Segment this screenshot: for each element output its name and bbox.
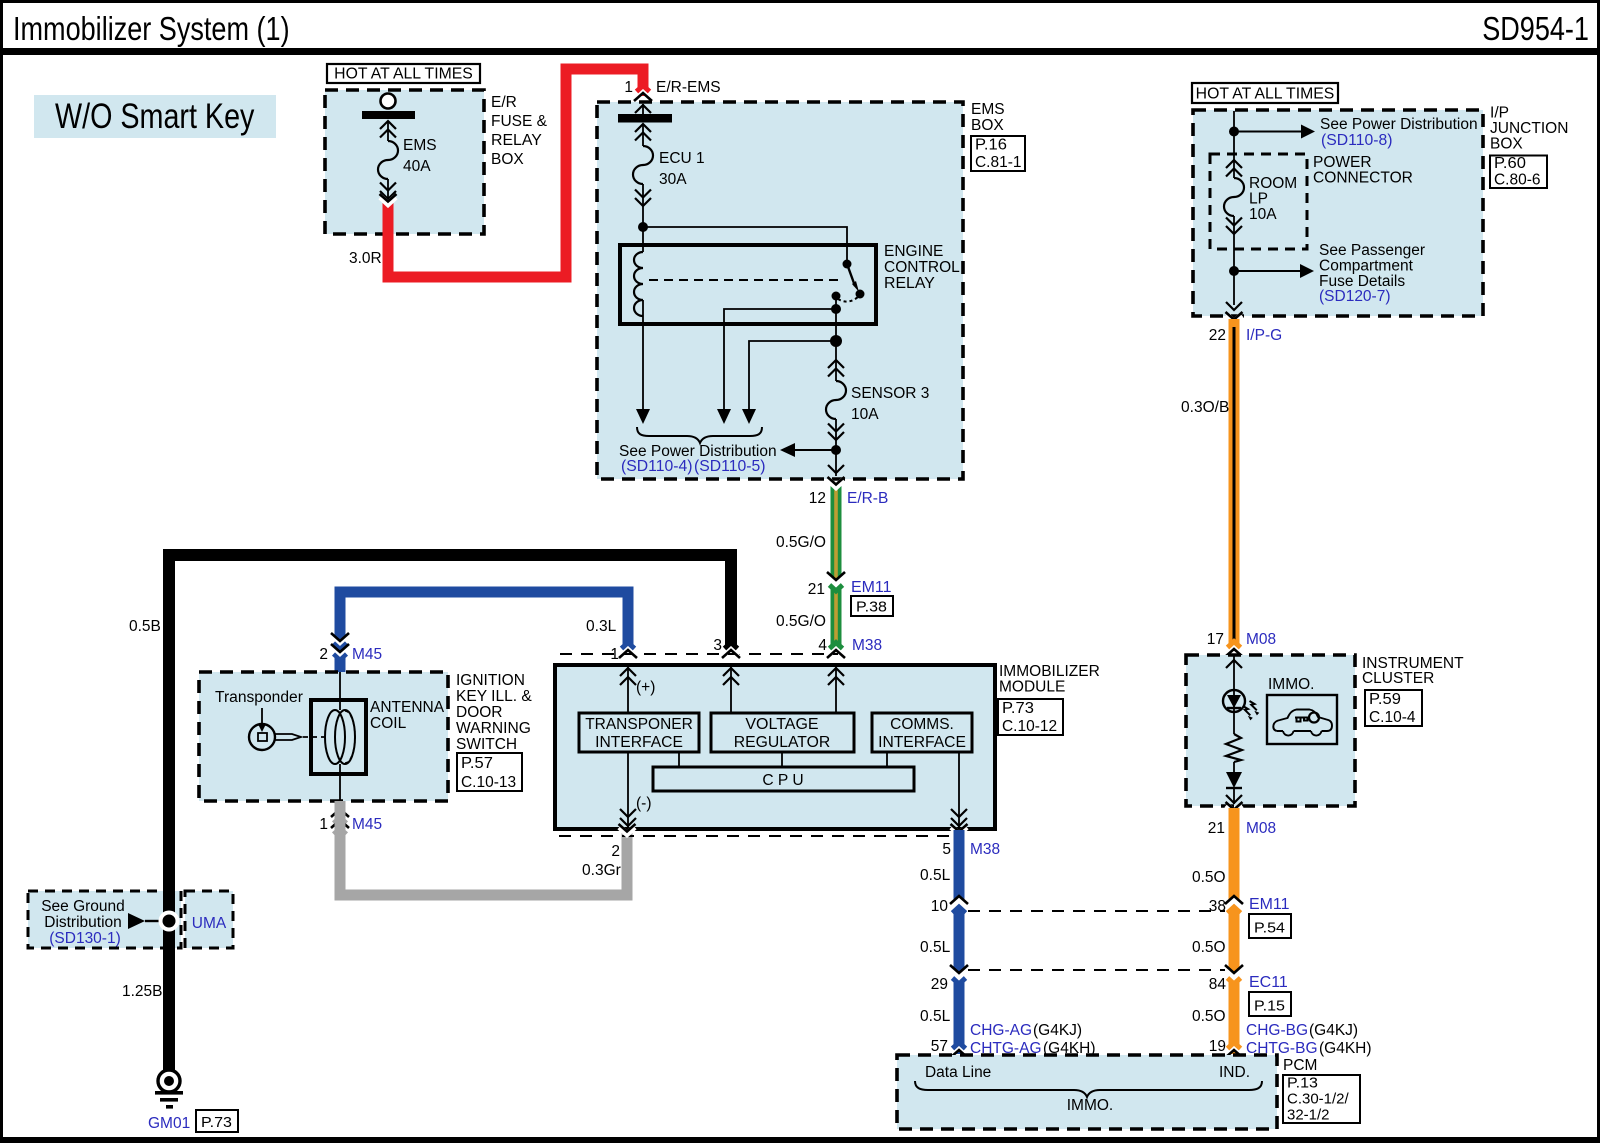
PCM reference P.13 C.30-1/2/ 32-1/2 [1283, 1074, 1360, 1123]
INSTRUMENT CLUSTER label [1362, 655, 1464, 687]
svg-text:(-): (-) [636, 795, 652, 812]
CPU block [653, 767, 914, 791]
svg-text:RELAY: RELAY [884, 275, 935, 292]
E/R FUSE & RELAY BOX label [491, 94, 548, 168]
svg-text:17: 17 [1207, 631, 1224, 648]
ANTENNA COIL box [311, 700, 366, 774]
relay switch [832, 260, 865, 302]
svg-text:ECU 1: ECU 1 [659, 150, 705, 167]
svg-text:0.5L: 0.5L [920, 867, 951, 884]
svg-text:BOX: BOX [491, 151, 524, 168]
svg-text:29: 29 [931, 976, 948, 993]
svg-text:IMMO.: IMMO. [1268, 676, 1315, 693]
EMS BOX enclosure [597, 102, 963, 479]
exit chevron I/P box [1226, 302, 1242, 310]
svg-text:UMA: UMA [192, 915, 227, 932]
svg-text:0.5L: 0.5L [920, 1008, 951, 1025]
PCM label [1283, 1057, 1317, 1074]
svg-text:RELAY: RELAY [491, 132, 542, 149]
svg-text:21: 21 [1208, 820, 1225, 837]
svg-text:Immobilizer System (1): Immobilizer System (1) [13, 10, 290, 47]
junction node relay output 1 [831, 304, 841, 314]
power distribution arrows [636, 409, 756, 424]
relay output wire to loads [835, 296, 837, 360]
entry arrow at pin 1 inside EMS box [635, 104, 651, 114]
svg-text:PCM: PCM [1283, 1057, 1317, 1074]
svg-text:E/R: E/R [491, 94, 517, 111]
svg-text:EMS: EMS [403, 137, 437, 154]
svg-text:Transponder: Transponder [215, 689, 303, 706]
title: Immobilizer System (1) [13, 10, 290, 47]
svg-text:5: 5 [942, 841, 951, 858]
svg-text:38: 38 [1209, 898, 1226, 915]
svg-text:0.5O: 0.5O [1192, 939, 1226, 956]
IMMOBILIZER MODULE box [555, 665, 995, 829]
svg-text:0.5L: 0.5L [920, 939, 951, 956]
cluster diode [1226, 772, 1242, 804]
arrow to see power distribution (I/P) [1234, 125, 1315, 139]
svg-text:21: 21 [808, 581, 825, 598]
wire 3.0R red power feed [388, 69, 643, 277]
connector 12 E/R-B [809, 477, 889, 507]
fuse EMS 40A value label [403, 137, 437, 175]
svg-text:0.5O: 0.5O [1192, 869, 1226, 886]
I/P JUNCTION BOX enclosure [1193, 110, 1483, 316]
wire name CHG-AG / CHTG-AG [970, 1022, 1096, 1057]
INSTRUMENT CLUSTER reference P.59 C.10-4 [1365, 690, 1422, 726]
svg-text:LP: LP [1249, 191, 1268, 208]
svg-text:SWITCH: SWITCH [456, 736, 517, 753]
arrow to see power distribution (EMS) [780, 443, 836, 457]
svg-text:BOX: BOX [971, 117, 1004, 134]
svg-text:(SD110-8): (SD110-8) [1321, 132, 1393, 149]
svg-text:HOT AT ALL TIMES: HOT AT ALL TIMES [1196, 86, 1335, 103]
connector 1 M38 (blue wire end) [610, 643, 637, 664]
POWER CONNECTOR enclosure [1210, 154, 1307, 249]
module wire TI to pin 2 [627, 752, 629, 810]
svg-text:0.5G/O: 0.5G/O [776, 534, 826, 551]
module pin 2 exit arrow [620, 809, 636, 827]
svg-text:CONNECTOR: CONNECTOR [1313, 170, 1413, 187]
svg-text:10A: 10A [1249, 206, 1277, 223]
svg-text:P.73: P.73 [201, 1114, 232, 1131]
connector 84 EC11 [1209, 965, 1288, 993]
wire label 0.5L upper [920, 867, 951, 884]
svg-text:EC11: EC11 [1249, 974, 1288, 991]
wire 0.5O orange [1229, 808, 1240, 1054]
svg-text:C.10-13: C.10-13 [461, 774, 516, 791]
svg-text:0.5O: 0.5O [1192, 1008, 1226, 1025]
svg-text:0.3L: 0.3L [586, 618, 617, 635]
See Power Distribution note (EMS) [619, 443, 777, 475]
Transponder label [215, 689, 303, 706]
svg-text:I/P: I/P [1490, 105, 1509, 122]
connector 38 EM11 [1209, 896, 1290, 915]
svg-text:(G4KJ): (G4KJ) [1309, 1022, 1358, 1039]
connector 3 M38 (black wire end) [713, 637, 740, 658]
exit chevron inside EMS box bottom [828, 465, 844, 473]
svg-text:HOT AT ALL TIMES: HOT AT ALL TIMES [334, 66, 473, 83]
svg-text:(SD120-7): (SD120-7) [1319, 288, 1391, 305]
INSTRUMENT CLUSTER enclosure [1186, 655, 1355, 806]
svg-text:P.60: P.60 [1494, 155, 1526, 172]
svg-text:32-1/2: 32-1/2 [1287, 1106, 1330, 1123]
ENGINE CONTROL RELAY label [884, 243, 960, 292]
bus bar (EMS box) [618, 114, 672, 123]
svg-text:IGNITION: IGNITION [456, 672, 525, 689]
svg-text:1: 1 [319, 816, 328, 833]
antenna coil windings [325, 672, 355, 801]
svg-text:12: 12 [809, 490, 826, 507]
wire label 0.5G/O upper [776, 534, 826, 551]
fuse ECU 1 30A value label [659, 150, 705, 188]
svg-text:19: 19 [1209, 1038, 1226, 1055]
wire fuse to exit (I/P) [1233, 234, 1235, 305]
module pin 3 entry arrow [723, 667, 739, 713]
relay coil [634, 227, 643, 316]
Data Line label [925, 1064, 991, 1081]
bus bar (E/R box) [362, 111, 415, 119]
svg-text:M08: M08 [1246, 631, 1276, 648]
svg-text:(G4KH): (G4KH) [1319, 1040, 1372, 1057]
svg-text:VOLTAGE: VOLTAGE [745, 716, 818, 733]
wire label 3.0R [349, 250, 382, 267]
connector 5 M38 [942, 824, 1000, 858]
transponder key symbol [249, 708, 301, 750]
IMMO. label (PCM) [1067, 1097, 1114, 1114]
svg-text:See Power Distribution: See Power Distribution [1320, 116, 1478, 133]
IMMO. car-with-key icon box [1267, 695, 1337, 744]
wire label 0.5B [129, 618, 161, 635]
fuse EMS 40A [378, 121, 398, 199]
See Passenger Compartment Fuse Details note [1319, 242, 1425, 305]
svg-text:C.81-1: C.81-1 [975, 154, 1022, 171]
I/P box internal feed wire [1233, 111, 1235, 160]
svg-text:CHG-AG: CHG-AG [970, 1022, 1032, 1039]
EM11 reference P.54 [1249, 914, 1291, 938]
svg-text:DOOR: DOOR [456, 704, 503, 721]
dashed connector row line 29-84 [968, 969, 1225, 971]
svg-text:0.3Gr: 0.3Gr [582, 862, 621, 879]
dashed connector row line 10-38 [968, 910, 1225, 912]
wire label 0.5O middle [1192, 939, 1226, 956]
svg-text:0.5B: 0.5B [129, 618, 161, 635]
svg-text:40A: 40A [403, 158, 431, 175]
connector 29 EC11 row [931, 965, 968, 993]
wire label 0.5O lower [1192, 1008, 1226, 1025]
IMMO. indicator LED [1223, 690, 1259, 720]
svg-text:SENSOR 3: SENSOR 3 [851, 385, 929, 402]
red wire exit connector at EMS fuse [380, 194, 397, 204]
svg-text:TRANSPONER: TRANSPONER [585, 716, 693, 733]
junction node passenger fuse note [1229, 266, 1239, 276]
module pin 1 entry arrow [620, 667, 636, 713]
I/P JUNCTION BOX label [1490, 105, 1568, 153]
module pin 4 entry arrow [828, 667, 844, 713]
svg-text:Data Line: Data Line [925, 1064, 991, 1081]
IND. label [1219, 1064, 1250, 1081]
svg-text:M08: M08 [1246, 820, 1276, 837]
svg-text:W/O Smart Key: W/O Smart Key [55, 97, 255, 136]
svg-text:84: 84 [1209, 976, 1227, 993]
sheet code SD954-1 [1482, 10, 1589, 47]
EC11 reference P.15 [1249, 992, 1291, 1016]
svg-text:EM11: EM11 [851, 579, 892, 596]
GM01 reference P.73 [196, 1110, 238, 1132]
svg-text:IMMO.: IMMO. [1067, 1097, 1114, 1114]
svg-text:KEY ILL. &: KEY ILL. & [456, 688, 532, 705]
junction node at see-power arrow [831, 445, 841, 455]
wire 0.5B black ground wire [169, 555, 731, 1070]
svg-text:4: 4 [818, 637, 827, 654]
svg-text:CLUSTER: CLUSTER [1362, 670, 1434, 687]
svg-text:(G4KJ): (G4KJ) [1033, 1022, 1082, 1039]
svg-text:3: 3 [713, 637, 722, 654]
svg-text:(SD130-1): (SD130-1) [49, 930, 121, 947]
junction node I/P feed [1229, 127, 1239, 137]
module wire COMMS to pin 5 [951, 752, 967, 827]
svg-text:1: 1 [610, 646, 619, 663]
I/P JUNCTION BOX reference P.60 C.80-6 [1490, 155, 1547, 188]
svg-text:EM11: EM11 [1249, 896, 1290, 913]
IMMOBILIZER MODULE reference P.73 C.10-12 [998, 699, 1063, 735]
svg-text:Distribution: Distribution [44, 914, 122, 931]
fuse ECU 1 30A [633, 124, 653, 206]
fusible link terminal circle [381, 94, 396, 109]
wire coil to power distribution arrow 1 [642, 300, 644, 410]
svg-text:P.13: P.13 [1287, 1074, 1318, 1091]
svg-text:2: 2 [319, 646, 328, 663]
svg-text:I/P-G: I/P-G [1246, 327, 1282, 344]
svg-text:CONTROL: CONTROL [884, 259, 960, 276]
svg-text:GM01: GM01 [148, 1115, 190, 1132]
svg-text:C.30-1/2/: C.30-1/2/ [1287, 1090, 1350, 1107]
W/O Smart Key banner [34, 95, 276, 138]
HOT AT ALL TIMES label (I/P box) [1192, 83, 1338, 103]
junction node after ECU1 fuse [638, 222, 648, 232]
svg-text:ENGINE: ENGINE [884, 243, 943, 260]
svg-text:C.80-6: C.80-6 [1494, 171, 1541, 188]
TRANSPONER INTERFACE block [579, 713, 699, 752]
connector 4 M38 (green wire end) [818, 637, 882, 658]
svg-text:P.16: P.16 [975, 137, 1007, 154]
svg-text:MODULE: MODULE [999, 679, 1065, 696]
svg-text:(SD110-5): (SD110-5) [694, 458, 766, 475]
IMMOBILIZER MODULE label [999, 663, 1100, 696]
See Ground Distribution box [28, 891, 181, 948]
brace inside PCM [915, 1081, 1262, 1097]
fuse SENSOR 3 10A value label [851, 385, 929, 423]
svg-text:COMMS.: COMMS. [890, 716, 954, 733]
svg-text:P.57: P.57 [461, 755, 493, 772]
connector 21 M08 [1208, 802, 1276, 837]
svg-text:P.59: P.59 [1369, 691, 1401, 708]
svg-text:POWER: POWER [1313, 154, 1372, 171]
svg-text:3.0R: 3.0R [349, 250, 382, 267]
ANTENNA COIL label [370, 699, 445, 732]
wire label 0.5L lower [920, 1008, 951, 1025]
svg-text:(SD110-4): (SD110-4) [621, 458, 693, 475]
svg-text:M38: M38 [970, 841, 1000, 858]
connector 10 M38/EM11 row [931, 896, 968, 915]
POWER CONNECTOR label [1313, 154, 1413, 187]
svg-text:M45: M45 [352, 646, 382, 663]
connector 21 EM11 [808, 572, 892, 598]
svg-text:E/R-B: E/R-B [847, 490, 888, 507]
svg-text:INTERFACE: INTERFACE [878, 734, 966, 751]
(+) label [636, 679, 655, 696]
svg-text:C.10-4: C.10-4 [1369, 709, 1416, 726]
svg-text:E/R-EMS: E/R-EMS [656, 79, 721, 96]
E/R FUSE & RELAY BOX enclosure [325, 90, 484, 234]
svg-text:See Passenger: See Passenger [1319, 242, 1425, 259]
connector 17 M08 [1207, 631, 1276, 657]
brace under arrows [637, 427, 762, 443]
svg-text:0.5G/O: 0.5G/O [776, 613, 826, 630]
cluster internal wire upper [1226, 656, 1242, 691]
svg-text:REGULATOR: REGULATOR [734, 734, 831, 751]
svg-text:ROOM: ROOM [1249, 175, 1297, 192]
svg-text:C P U: C P U [762, 772, 803, 789]
svg-text:22: 22 [1209, 327, 1226, 344]
PCM enclosure [897, 1055, 1277, 1129]
wire from node to relay switch [643, 227, 847, 262]
svg-text:ANTENNA: ANTENNA [370, 699, 445, 716]
wire 0.3Gr gray [340, 801, 627, 895]
wire 0.5L blue data line [954, 830, 965, 1054]
wire 0.5G/O green with orange tracer [831, 484, 842, 652]
IGNITION KEY ILL label [456, 672, 532, 753]
wire name CHG-BG / CHTG-BG [1246, 1022, 1372, 1057]
M38 connector row dashed line top [560, 653, 838, 655]
ground name GM01 [148, 1115, 190, 1132]
connector pin 57 at PCM [931, 1038, 968, 1058]
svg-text:P.38: P.38 [856, 599, 887, 616]
svg-text:IND.: IND. [1219, 1064, 1250, 1081]
svg-text:FUSE &: FUSE & [491, 113, 548, 130]
wire 1.25B through ground boxes [163, 889, 175, 950]
svg-text:(+): (+) [636, 679, 655, 696]
svg-text:P.73: P.73 [1002, 700, 1034, 717]
svg-text:P.15: P.15 [1254, 998, 1285, 1015]
svg-text:1: 1 [624, 79, 633, 96]
wire sensor fuse to exit [835, 440, 837, 476]
wire label 0.5G/O lower [776, 613, 826, 630]
module internal wires to CPU [679, 752, 887, 767]
wire label 0.3Gr [582, 862, 621, 879]
fuse ROOM LP 10A value label [1249, 175, 1297, 223]
svg-text:30A: 30A [659, 171, 687, 188]
wire from fuse to relay node [642, 206, 644, 227]
IGNITION KEY ILL reference P.57 C.10-13 [457, 753, 522, 791]
dashed coupling line key to coil [303, 736, 329, 738]
svg-text:0.3O/B: 0.3O/B [1181, 399, 1229, 416]
ENGINE CONTROL RELAY box [620, 245, 876, 324]
svg-text:Compartment: Compartment [1319, 258, 1414, 275]
connector 2 M45 [319, 633, 382, 663]
wire 0.3L blue [340, 592, 628, 673]
svg-text:P.54: P.54 [1254, 920, 1285, 937]
EMS BOX label [971, 101, 1005, 134]
svg-text:C.10-12: C.10-12 [1002, 718, 1057, 735]
(-) label [636, 795, 652, 812]
arrow to passenger compartment fuse details [1234, 264, 1314, 278]
VOLTAGE REGULATOR block [711, 713, 854, 752]
wire 0.3O/B orange with black tracer [1229, 319, 1240, 651]
EMS BOX reference P.16 C.81-1 [971, 136, 1025, 171]
svg-text:WARNING: WARNING [456, 720, 531, 737]
COMMS. INTERFACE block [872, 713, 972, 752]
svg-text:10: 10 [931, 898, 949, 915]
svg-text:COIL: COIL [370, 715, 407, 732]
wire from relay to power distribution arrow 2 [724, 309, 836, 410]
cluster resistor [1226, 691, 1242, 772]
EM11 reference P.38 [851, 596, 893, 616]
HOT AT ALL TIMES label (E/R box) [327, 64, 480, 83]
junction node relay output 2 [830, 335, 842, 347]
wire to power distribution arrow 3 [749, 341, 836, 410]
connector 1 E/R-EMS [624, 79, 720, 101]
svg-text:2: 2 [611, 843, 620, 860]
UMA ground net box [185, 891, 233, 948]
connector 22 I/P-G [1209, 312, 1282, 344]
svg-text:1.25B: 1.25B [122, 983, 163, 1000]
IGNITION KEY ILL enclosure [199, 672, 448, 801]
ground GM01 [155, 1070, 183, 1109]
ground distribution arrow and node [128, 911, 180, 932]
svg-text:CHG-BG: CHG-BG [1246, 1022, 1308, 1039]
See Power Distribution note (I/P) [1320, 116, 1478, 149]
connector 2 M38 pin (gray exit) [611, 824, 635, 860]
wire label 1.25B [122, 983, 163, 1000]
IMMO. label (cluster) [1268, 676, 1315, 693]
connector pin 19 at PCM [1209, 1038, 1243, 1058]
svg-text:M38: M38 [852, 637, 882, 654]
svg-text:M45: M45 [352, 816, 382, 833]
fuse SENSOR 3 10A [826, 360, 846, 440]
relay actuation dashed line [649, 279, 838, 281]
svg-text:IMMOBILIZER: IMMOBILIZER [999, 663, 1100, 680]
svg-text:INTERFACE: INTERFACE [595, 734, 683, 751]
svg-text:EMS: EMS [971, 101, 1005, 118]
svg-text:JUNCTION: JUNCTION [1490, 120, 1568, 137]
wire label 0.3O/B [1181, 399, 1229, 416]
svg-text:See Ground: See Ground [41, 898, 125, 915]
svg-text:10A: 10A [851, 406, 879, 423]
wire label 0.5L middle [920, 939, 951, 956]
wire label 0.5O upper [1192, 869, 1226, 886]
fuse ROOM LP 10A [1224, 160, 1244, 234]
M38 connector row dashed line bottom [559, 835, 950, 837]
svg-text:57: 57 [931, 1038, 948, 1055]
connector 1 M45 [319, 809, 382, 834]
svg-text:SD954-1: SD954-1 [1482, 10, 1589, 47]
svg-text:BOX: BOX [1490, 136, 1523, 153]
wire label 0.3L [586, 618, 617, 635]
